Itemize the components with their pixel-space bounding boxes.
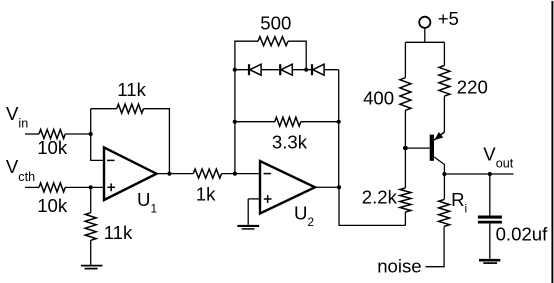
resistor 500 (feedback) (258, 37, 288, 46)
diode D3 (312, 64, 324, 75)
wire U1 inverting rail (91, 109, 104, 161)
wire capacitor top lead (489, 174, 491, 216)
op-amp U1 (104, 147, 157, 200)
wire 3.3k row left (235, 121, 275, 123)
op-amp U2 (260, 161, 315, 214)
capacitor 0.02uf plates (478, 217, 502, 222)
wire 500 right drop (288, 41, 306, 69)
wire diode row (235, 69, 339, 71)
wire 400 rail top (404, 42, 406, 77)
U2 plus sign (264, 195, 272, 203)
svg-text:+5: +5 (438, 8, 459, 29)
node base junction (403, 146, 408, 151)
svg-text:Vcth: Vcth (6, 156, 35, 184)
power +5 terminal (419, 17, 430, 28)
svg-text:Ri: Ri (451, 189, 467, 215)
wire U2 output down and over to 2.2k (339, 187, 405, 225)
wire R_i bottom to noise (426, 226, 445, 266)
right border line (551, 1, 553, 283)
svg-text:10k: 10k (37, 137, 68, 158)
resistor R_i (439, 200, 450, 227)
wire 1k to U2 minus (222, 173, 260, 175)
wire U2 plus to ground (247, 199, 249, 225)
wire 2.2k bottom stub (404, 212, 406, 225)
wire V_cth resistor to plus input (65, 186, 104, 188)
svg-text:0.02uf: 0.02uf (496, 224, 549, 245)
wire U2 feedback right rail (338, 70, 340, 188)
node collector / R_i (442, 172, 446, 176)
U1 plus sign (107, 183, 115, 191)
diode D2 (280, 64, 292, 75)
resistor 1k (193, 169, 221, 178)
wire 400 to base node (404, 110, 406, 148)
svg-text:1k: 1k (196, 183, 216, 204)
node U1 output (167, 172, 171, 176)
svg-text:U2: U2 (294, 202, 314, 228)
svg-text:2.2k: 2.2k (362, 186, 398, 207)
diode D1 (249, 64, 261, 75)
ground (U2 plus input) (237, 226, 259, 229)
resistor 2.2k (400, 188, 411, 212)
node diode row left (233, 68, 237, 72)
svg-text:Vin: Vin (6, 103, 28, 130)
node U2 output / feedback (337, 185, 341, 189)
node 500/diode junction (304, 68, 308, 72)
node 3.3k right (337, 120, 341, 124)
wire U1 feedback top left (91, 108, 117, 110)
wire base (405, 147, 429, 149)
svg-text:U1: U1 (137, 189, 157, 216)
transistor Q1 base bar (430, 135, 434, 161)
wire supply bar (405, 41, 444, 43)
wire U2 output (315, 186, 339, 188)
node V_out (488, 172, 492, 176)
node V_cth / 11k junction (89, 185, 93, 189)
wire U1 output (157, 173, 194, 175)
wire 220 to emitter (443, 96, 445, 132)
svg-text:400: 400 (363, 87, 394, 108)
wire U1 feedback right rail (144, 109, 170, 174)
wire V_in lead (25, 133, 39, 135)
resistor 220 (439, 66, 450, 97)
svg-text:11k: 11k (104, 222, 133, 243)
transistor Q1 collector lead (434, 157, 444, 174)
node 3.3k left (233, 120, 237, 124)
U1 minus sign (107, 159, 115, 161)
wire capacitor bottom lead (489, 224, 491, 259)
wire 3.3k row right (301, 121, 339, 123)
transistor Q1 emitter arrow (434, 132, 443, 140)
transistor Q1 emitter lead (434, 132, 444, 140)
wire U2 plus stub (248, 198, 260, 200)
node U2 inverting input (233, 172, 237, 176)
svg-text:500: 500 (260, 13, 291, 34)
wire output row (444, 173, 513, 175)
U2 minus sign (264, 173, 272, 175)
wire V_cth lead (25, 186, 39, 188)
svg-text:Vout: Vout (483, 144, 513, 171)
wire 220 rail top (443, 42, 445, 65)
resistor 11k (to ground) (85, 213, 96, 241)
ground (below 11k) (81, 266, 103, 269)
node V_in / feedback junction (89, 132, 93, 136)
resistor 400 (400, 78, 411, 111)
svg-text:3.3k: 3.3k (272, 131, 308, 152)
svg-text:10k: 10k (37, 195, 68, 216)
ground (capacitor) (479, 260, 500, 263)
resistor 10k (V_in input) (39, 130, 65, 139)
resistor 3.3k (275, 117, 301, 126)
wire 11k to ground (90, 240, 92, 265)
svg-text:220: 220 (457, 77, 488, 98)
svg-text:11k: 11k (117, 79, 146, 100)
svg-text:noise: noise (377, 256, 421, 277)
wire 11k to ground leg (90, 187, 92, 212)
wire V_in resistor to summing node (65, 133, 91, 135)
resistor 10k (V_cth input) (39, 183, 65, 192)
wire R_i top (443, 174, 445, 200)
wire U2 feedback left rail (235, 41, 258, 173)
wire 2.2k top to base node (404, 148, 406, 188)
resistor 11k (U1 feedback) (117, 104, 144, 113)
wire +5 stub (424, 28, 426, 42)
